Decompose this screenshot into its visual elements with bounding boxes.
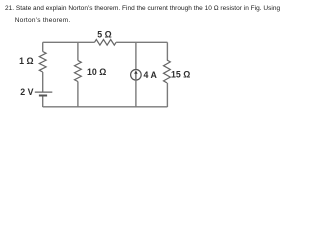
svg-text:5 Ω: 5 Ω — [97, 30, 111, 40]
resistor 5 ohm (horizontal, top wire) — [95, 40, 117, 46]
svg-text:10 Ω: 10 Ω — [87, 67, 106, 77]
wire: left branch upper (top-left corner down to 1-ohm) — [42, 42, 44, 51]
wire: left branch middle (1-ohm to battery) — [42, 72, 44, 92]
svg-text:15 Ω: 15 Ω — [171, 70, 190, 80]
question text line 2 — [15, 17, 71, 24]
wire: left branch lower (battery to bottom-left corner) — [42, 96, 44, 107]
wire: bottom wire — [43, 106, 168, 108]
svg-text:2 V: 2 V — [20, 87, 33, 97]
wire: 10-ohm branch lower — [77, 82, 79, 108]
svg-text:1 Ω: 1 Ω — [19, 56, 33, 66]
resistor 15 ohm (right branch, vertical) — [164, 60, 171, 83]
wire: current-source branch lower — [135, 80, 137, 107]
battery 2 V (long plate) — [35, 91, 53, 93]
wire: top wire right segment (5-ohm to top-right corner) — [116, 41, 167, 43]
question text line 1 — [5, 5, 280, 12]
wire: current-source branch upper — [135, 42, 137, 69]
svg-text:4 A: 4 A — [144, 70, 158, 80]
resistor 10 ohm (middle branch, vertical) — [75, 61, 82, 82]
wire: top wire left segment (node A to 5-ohm) — [43, 41, 95, 43]
wire: 10-ohm branch upper — [77, 42, 79, 60]
resistor 1 ohm (left branch, vertical) — [39, 52, 46, 73]
wire: right branch upper (top-right corner to 15-ohm) — [166, 42, 168, 60]
wire: right branch lower (15-ohm to bottom-right corner) — [166, 83, 168, 107]
battery 2 V (short thick plate) — [39, 95, 47, 97]
current source 4 A (circle with up arrow) — [131, 70, 142, 81]
